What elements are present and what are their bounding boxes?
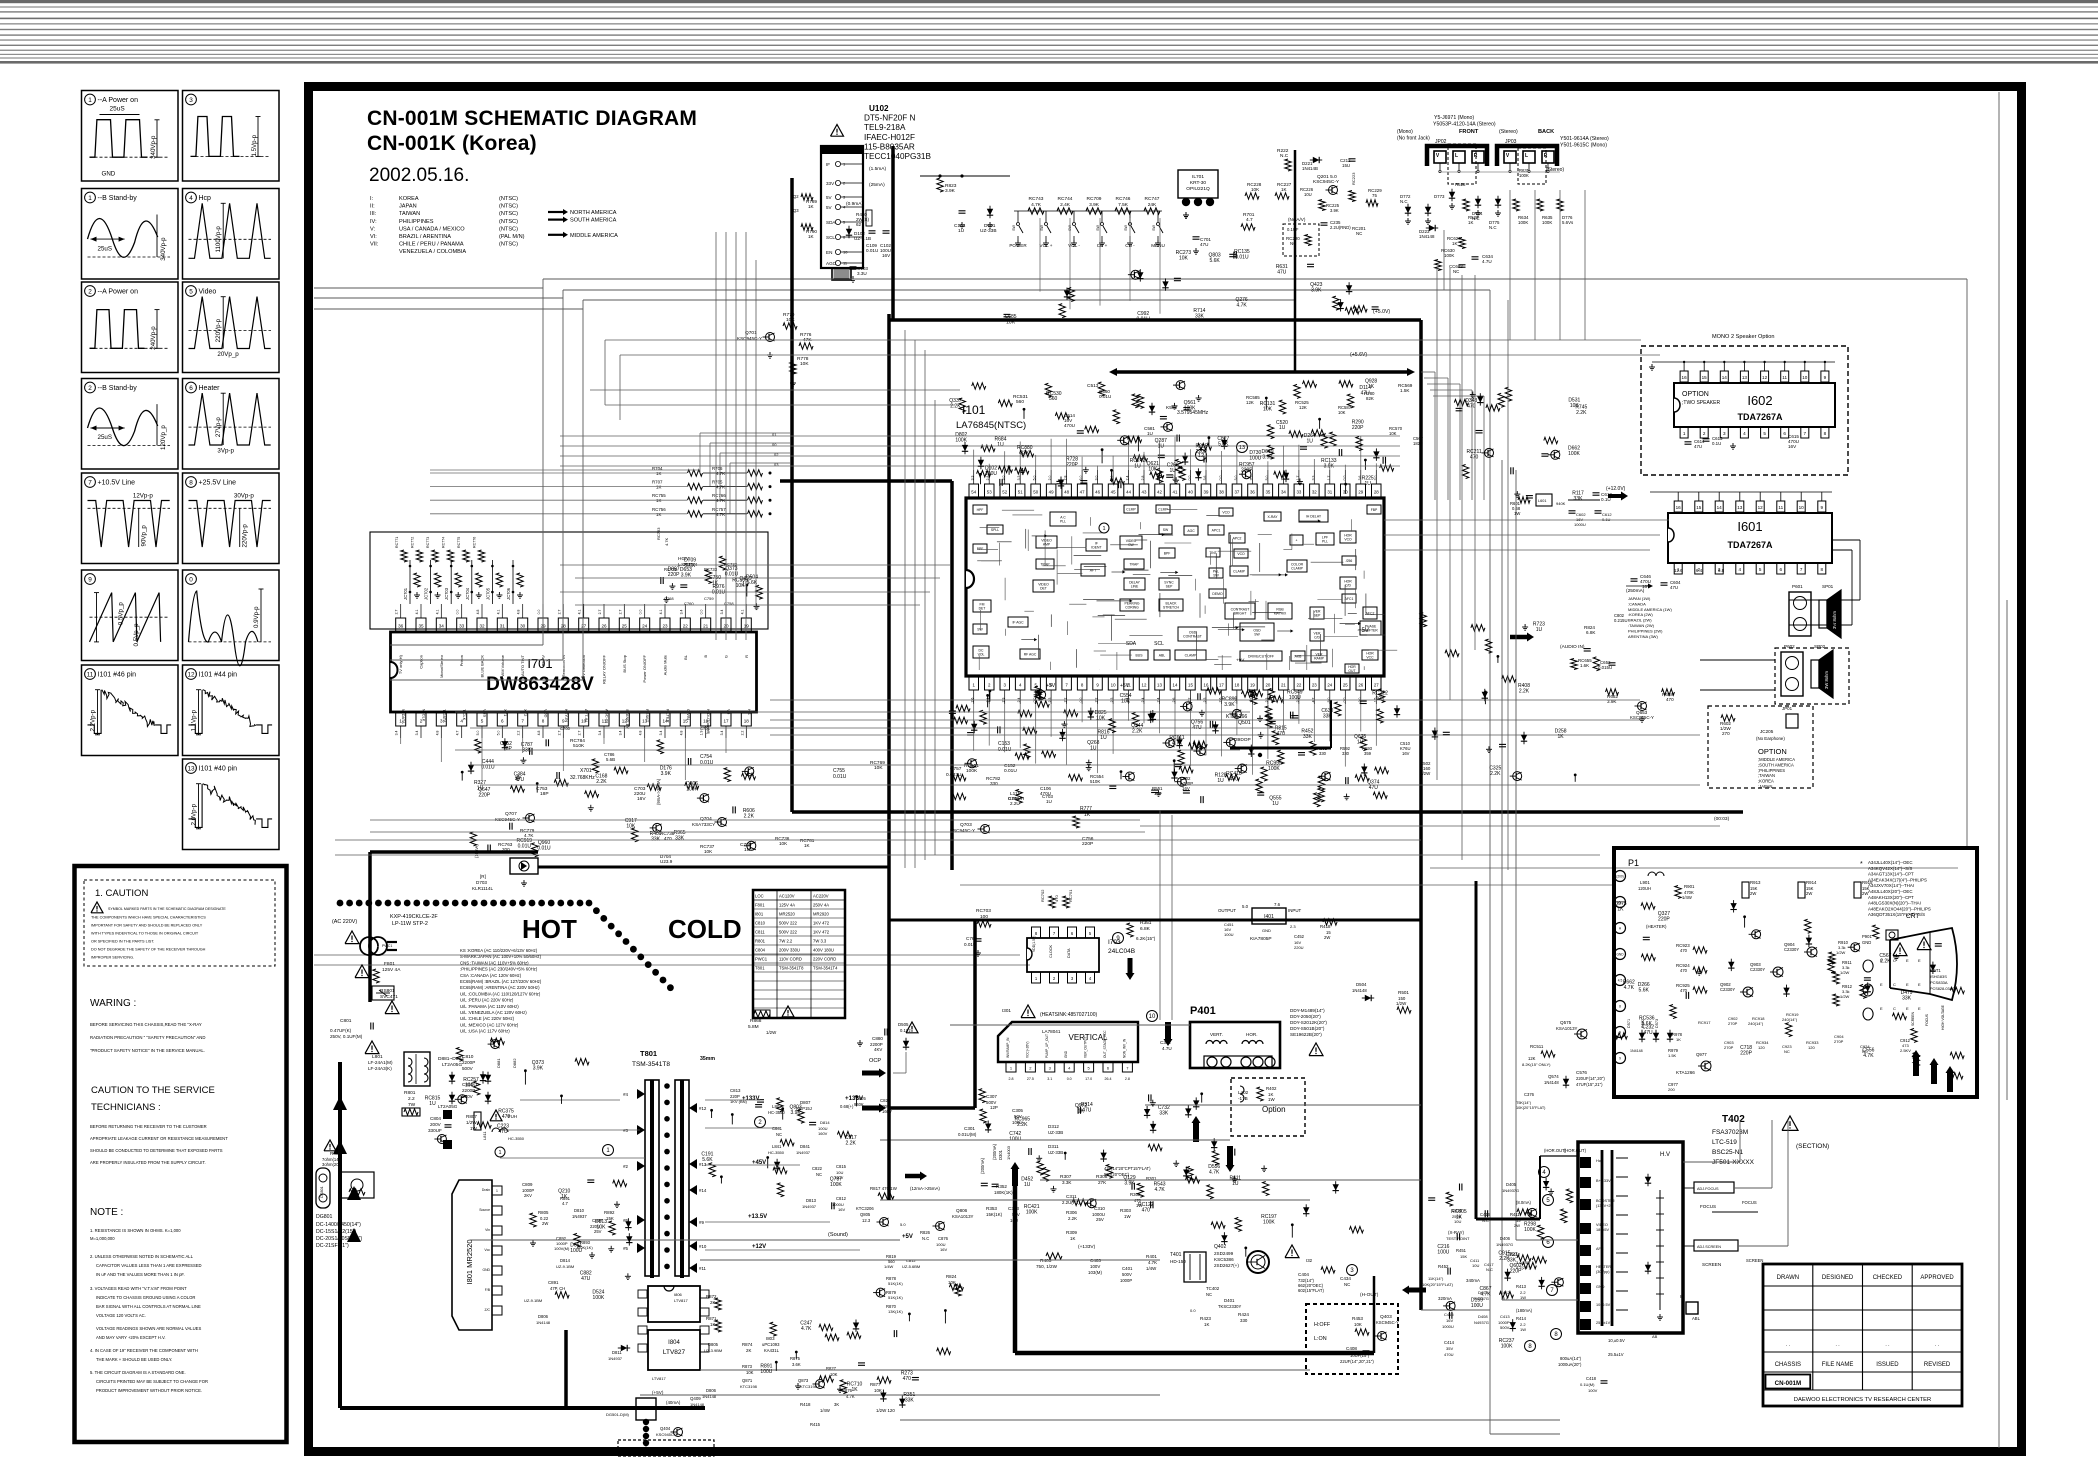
svg-text:4.8: 4.8 xyxy=(476,610,480,615)
svg-text:2.2K: 2.2K xyxy=(846,1140,857,1146)
svg-text:1N4148: 1N4148 xyxy=(1419,234,1435,239)
svg-text:1U: 1U xyxy=(1147,431,1153,436)
svg-text:1U: 1U xyxy=(1232,1181,1239,1187)
svg-text:SCL: SCL xyxy=(826,235,835,240)
svg-text:2.5KV: 2.5KV xyxy=(1900,1048,1911,1053)
svg-text:1/2W: 1/2W xyxy=(1840,994,1850,999)
svg-text:1.1Vp-p: 1.1Vp-p xyxy=(191,709,198,731)
svg-text:15K: 15K xyxy=(1460,1254,1467,1259)
svg-text:RC703: RC703 xyxy=(976,908,991,914)
svg-text:+133V: +133V xyxy=(845,1095,864,1102)
svg-text:SW: SW xyxy=(1152,225,1156,231)
svg-text:3.9K: 3.9K xyxy=(1224,702,1235,708)
svg-text:1N4148: 1N4148 xyxy=(1352,988,1367,993)
svg-text:4: 4 xyxy=(1743,431,1746,436)
svg-text:Q575: Q575 xyxy=(1560,1020,1572,1025)
svg-text:C403: C403 xyxy=(1090,1258,1101,1263)
svg-text:DDY-M1489(14"): DDY-M1489(14") xyxy=(1290,1008,1325,1013)
svg-text:BL: BL xyxy=(683,654,688,660)
svg-text:I801 MR2520: I801 MR2520 xyxy=(465,1239,474,1284)
svg-text:1N4148: 1N4148 xyxy=(536,1320,551,1325)
svg-text:1K: 1K xyxy=(1281,187,1288,192)
svg-text:AGC: AGC xyxy=(1187,529,1195,533)
svg-text:39: 39 xyxy=(1204,489,1209,494)
svg-text:ABL: ABL xyxy=(1692,1316,1701,1321)
svg-text:POWER: POWER xyxy=(1009,243,1027,248)
svg-text:3.4: 3.4 xyxy=(679,610,683,615)
svg-text:Source: Source xyxy=(479,1208,490,1212)
svg-text:C812: C812 xyxy=(836,1196,847,1201)
svg-text:6: 6 xyxy=(501,718,504,723)
svg-text:2KV: 2KV xyxy=(524,1193,532,1198)
svg-text:NORTH AMERICA: NORTH AMERICA xyxy=(570,210,617,216)
svg-text:FOCUS: FOCUS xyxy=(1700,1204,1716,1209)
svg-text:PCS833A: PCS833A xyxy=(1930,980,1948,985)
svg-text:100U: 100U xyxy=(1012,1120,1023,1125)
svg-text:E: E xyxy=(1880,982,1883,987)
svg-text:3.9K: 3.9K xyxy=(945,188,956,194)
svg-text:0.01U: 0.01U xyxy=(518,844,532,850)
svg-text:INDICATE TO CHASSIS GROUND USI: INDICATE TO CHASSIS GROUND USING A COLOR xyxy=(96,1295,195,1300)
svg-text:R913: R913 xyxy=(1750,880,1761,885)
svg-text:(40mA): (40mA) xyxy=(666,1400,681,1405)
svg-text:LP-11W STP-2: LP-11W STP-2 xyxy=(392,921,428,927)
svg-text:(Sound): (Sound) xyxy=(828,1232,848,1238)
svg-text:2W: 2W xyxy=(1514,1223,1520,1228)
svg-text:A34JLL40X(14")--OEC: A34JLL40X(14")--OEC xyxy=(1868,860,1913,865)
svg-text:7: 7 xyxy=(1800,567,1803,572)
svg-text:340Vp-p: 340Vp-p xyxy=(160,237,167,261)
svg-text:8: 8 xyxy=(1619,1005,1621,1009)
svg-text:WITH TYPES INDENTICAL TO THOSE: WITH TYPES INDENTICAL TO THOSE IN ORIGIN… xyxy=(91,932,199,936)
svg-text:47U: 47U xyxy=(498,1129,508,1135)
svg-text:CN-001M SCHEMATIC DIAGRAM: CN-001M SCHEMATIC DIAGRAM xyxy=(367,107,697,130)
svg-text:PLL: PLL xyxy=(1322,540,1328,544)
svg-text:220Vp-p: 220Vp-p xyxy=(242,524,249,548)
svg-text:1/2W 120: 1/2W 120 xyxy=(876,1408,895,1413)
svg-text:R451: R451 xyxy=(1456,1248,1467,1253)
svg-text:2.2U(R1): 2.2U(R1) xyxy=(1062,1200,1080,1205)
svg-text:100K: 100K xyxy=(1444,253,1454,258)
svg-text:38: 38 xyxy=(1219,489,1224,494)
svg-text:47U: 47U xyxy=(1670,585,1678,590)
svg-text:MIDDLE AMERICA: MIDDLE AMERICA xyxy=(570,233,618,239)
svg-text:HPF: HPF xyxy=(977,508,984,512)
svg-text:16V: 16V xyxy=(1788,444,1797,449)
svg-text:0.5Vp_p: 0.5Vp_p xyxy=(118,602,125,626)
svg-text:KA431L: KA431L xyxy=(764,1348,780,1353)
svg-text:4: 4 xyxy=(189,195,193,202)
svg-text:VCC(+26V): VCC(+26V) xyxy=(1025,1042,1029,1058)
svg-text:470(14"20"CPT15"FLAT): 470(14"20"CPT15"FLAT) xyxy=(1104,1166,1151,1171)
svg-text:1U: 1U xyxy=(1046,799,1052,804)
svg-text:10K: 10K xyxy=(874,1388,882,1393)
svg-text:KTA1266: KTA1266 xyxy=(1676,1070,1695,1075)
svg-text:5.6K: 5.6K xyxy=(1639,987,1650,993)
svg-text:R807: R807 xyxy=(466,1114,477,1119)
svg-text:359: 359 xyxy=(1364,751,1372,756)
svg-text:GND: GND xyxy=(1616,953,1624,957)
svg-text:4.7K: 4.7K xyxy=(1236,303,1247,309)
svg-text:L: L xyxy=(1525,153,1528,159)
svg-text:9: 9 xyxy=(1821,505,1824,510)
svg-text:Vin: Vin xyxy=(485,1228,490,1232)
svg-text:36: 36 xyxy=(398,623,404,628)
svg-text:EC65(RAM) :BRAZIL (AC 127/220V: EC65(RAM) :BRAZIL (AC 127/220V 60Hz) xyxy=(460,979,542,984)
svg-text:R352: R352 xyxy=(996,1184,1007,1189)
svg-text:U/L :COLOMBIA (AC 110/120/127V: U/L :COLOMBIA (AC 110/120/127V 60Hz) xyxy=(460,991,541,996)
svg-text:4.1: 4.1 xyxy=(659,610,663,615)
svg-text:RC702: RC702 xyxy=(1040,889,1045,902)
svg-text:XT2: XT2 xyxy=(523,709,528,717)
svg-text:23: 23 xyxy=(662,623,668,628)
svg-text:1N4148: 1N4148 xyxy=(1544,1080,1559,1085)
svg-text:S-MARK:JAPAN (AC 100V+10% 50/6: S-MARK:JAPAN (AC 100V+10% 50/60Hz) xyxy=(460,954,542,959)
svg-text:16V: 16V xyxy=(1402,751,1410,756)
svg-text:220P: 220P xyxy=(1740,1051,1752,1057)
svg-text:R309: R309 xyxy=(1066,1230,1077,1235)
svg-text:IMPROPER SERVICING.: IMPROPER SERVICING. xyxy=(91,956,134,960)
svg-text:-17B: -17B xyxy=(1238,1096,1248,1101)
svg-text:6: 6 xyxy=(1780,567,1783,572)
svg-text:4.7K: 4.7K xyxy=(716,471,725,476)
svg-text:5.6K: 5.6K xyxy=(1218,442,1229,448)
svg-text:10K: 10K xyxy=(1096,716,1106,722)
svg-text:1/2W: 1/2W xyxy=(766,1030,777,1035)
svg-text:Heater: Heater xyxy=(199,385,221,392)
svg-text:10K: 10K xyxy=(1389,431,1397,436)
svg-text:3.4: 3.4 xyxy=(395,731,399,736)
svg-text:13: 13 xyxy=(187,765,195,772)
svg-text:C418: C418 xyxy=(1586,1376,1597,1381)
svg-text:FILTER: FILTER xyxy=(666,709,671,723)
svg-text:B: B xyxy=(703,655,708,658)
svg-text:27K: 27K xyxy=(1098,1180,1107,1185)
svg-text:1000U: 1000U xyxy=(1442,1324,1454,1329)
svg-text:#3: #3 xyxy=(623,1128,628,1133)
svg-text:DG801: DG801 xyxy=(320,1186,324,1197)
svg-text:AMP: AMP xyxy=(1043,543,1051,547)
svg-text:4.8: 4.8 xyxy=(639,731,643,736)
svg-text:4.7K: 4.7K xyxy=(664,537,669,546)
svg-text:10K(20"15"FLAT): 10K(20"15"FLAT) xyxy=(1516,1106,1546,1110)
svg-text:N.C: N.C xyxy=(922,1236,929,1241)
svg-text:2W: 2W xyxy=(1324,935,1330,940)
svg-text:3.4: 3.4 xyxy=(618,731,622,736)
svg-text:270P: 270P xyxy=(1724,1045,1734,1050)
svg-text:220P: 220P xyxy=(478,792,490,798)
svg-text:ABL: ABL xyxy=(1159,654,1166,658)
svg-text:4.7K: 4.7K xyxy=(1863,1053,1874,1059)
svg-text:UZ-33B: UZ-33B xyxy=(1048,1150,1063,1155)
svg-text:(NTSC): (NTSC) xyxy=(499,196,518,202)
svg-text:D810: D810 xyxy=(574,1208,585,1213)
svg-text:DET: DET xyxy=(979,607,986,611)
svg-text:CSA :CANADA (AC 120V 60Hz): CSA :CANADA (AC 120V 60Hz) xyxy=(460,973,522,978)
svg-text:10K: 10K xyxy=(746,1370,754,1375)
svg-text:MIDDLE AMERICA (1W): MIDDLE AMERICA (1W) xyxy=(1628,607,1672,612)
svg-text:10K: 10K xyxy=(830,1372,838,1377)
svg-text:TDA7267A: TDA7267A xyxy=(1727,540,1773,550)
svg-text:10K: 10K xyxy=(1251,187,1260,192)
svg-text:VOLTAGE READINGS SHOWN ARE NOR: VOLTAGE READINGS SHOWN ARE NORMAL VALUES xyxy=(96,1326,201,1331)
svg-text:20: 20 xyxy=(1265,682,1270,687)
svg-text:5.0: 5.0 xyxy=(1033,476,1037,481)
svg-text:220P: 220P xyxy=(1352,425,1364,431)
svg-text:DO NOT DEGRADE THE SAFETY OF T: DO NOT DEGRADE THE SAFETY OF THE RECEIVE… xyxy=(91,948,206,952)
svg-text:220P: 220P xyxy=(1658,917,1670,923)
svg-text:III:: III: xyxy=(370,211,377,217)
svg-text:3W 8ohm: 3W 8ohm xyxy=(1824,671,1829,689)
svg-text:AND MAY VARY +20% EXCEPT H.V.: AND MAY VARY +20% EXCEPT H.V. xyxy=(96,1335,166,1340)
svg-text:C/D: C/D xyxy=(1345,584,1351,588)
svg-text:Q402: Q402 xyxy=(1214,1244,1226,1250)
svg-text:FOCUS: FOCUS xyxy=(1925,1013,1929,1026)
svg-text:82K: 82K xyxy=(1366,396,1374,401)
svg-text:EN: EN xyxy=(826,250,832,255)
svg-text:100K: 100K xyxy=(1568,451,1580,457)
svg-text:P602: P602 xyxy=(1784,644,1795,649)
svg-text:(1.5mA): (1.5mA) xyxy=(869,166,886,172)
svg-text:(HEATSINK:4857027100): (HEATSINK:4857027100) xyxy=(1040,1012,1097,1018)
svg-text:1/4W: 1/4W xyxy=(820,1408,830,1413)
svg-text:1K: 1K xyxy=(1452,241,1457,246)
svg-text:SW: SW xyxy=(1012,225,1016,231)
svg-text:SW: SW xyxy=(1254,633,1260,637)
svg-text:2002.05.16.: 2002.05.16. xyxy=(369,165,469,186)
svg-text:34: 34 xyxy=(439,623,445,628)
svg-text:5.0: 5.0 xyxy=(1172,476,1176,481)
svg-text:6: 6 xyxy=(189,385,193,392)
svg-text:33K: 33K xyxy=(1574,496,1584,502)
svg-text:C876: C876 xyxy=(938,1236,949,1241)
svg-text:25uS: 25uS xyxy=(98,434,112,441)
svg-text:MR2520: MR2520 xyxy=(779,912,795,917)
svg-text:VSS: VSS xyxy=(483,709,488,717)
svg-text:ISHG83S: ISHG83S xyxy=(1930,974,1947,979)
svg-text:D504: D504 xyxy=(1356,982,1367,987)
svg-text:RC771: RC771 xyxy=(395,537,399,548)
svg-text:1000uA(20"): 1000uA(20") xyxy=(1558,1362,1582,1367)
svg-text:C408: C408 xyxy=(1346,1346,1357,1351)
svg-text:NOTE :: NOTE : xyxy=(90,1207,123,1218)
svg-text:R353: R353 xyxy=(986,1206,997,1211)
svg-text:4.8: 4.8 xyxy=(517,610,521,615)
svg-text:T5K(14"): T5K(14") xyxy=(1516,1101,1532,1105)
svg-text:1.7: 1.7 xyxy=(1327,476,1331,481)
svg-text:FBP: FBP xyxy=(1371,508,1378,512)
svg-text:3.9K: 3.9K xyxy=(1311,287,1322,293)
svg-text:4.7U: 4.7U xyxy=(1482,259,1492,264)
svg-text:100K: 100K xyxy=(1518,220,1528,225)
svg-text:10K: 10K xyxy=(1354,1322,1362,1327)
svg-text:X-RAY: X-RAY xyxy=(1267,515,1278,519)
svg-text:IL701: IL701 xyxy=(1192,174,1204,180)
svg-text:U/L :USA (AC 117V 60Hz): U/L :USA (AC 117V 60Hz) xyxy=(460,1029,510,1034)
svg-text:CRT: CRT xyxy=(1906,913,1919,920)
svg-text:270: 270 xyxy=(1722,731,1730,736)
svg-text:A34EAK34X(17)(4")--PHILIPS: A34EAK34X(17)(4")--PHILIPS xyxy=(1868,877,1927,882)
svg-text:C513: C513 xyxy=(1087,383,1099,389)
svg-text:4.7K: 4.7K xyxy=(716,498,725,503)
svg-text:7W 2.2: 7W 2.2 xyxy=(779,939,793,944)
svg-text:3.3: 3.3 xyxy=(971,476,975,481)
svg-text:1.5K: 1.5K xyxy=(1668,1053,1677,1058)
svg-text:ISSUED: ISSUED xyxy=(1876,1362,1899,1368)
svg-text:2.2U(RND): 2.2U(RND) xyxy=(1330,225,1351,230)
svg-text:T402: T402 xyxy=(1722,1114,1745,1125)
svg-text:1/4W: 1/4W xyxy=(1146,1266,1157,1271)
svg-text:21: 21 xyxy=(1281,682,1286,687)
svg-text:VIDEO: VIDEO xyxy=(1596,1223,1608,1227)
svg-text:D311: D311 xyxy=(1048,1144,1059,1149)
svg-text:R418: R418 xyxy=(800,1402,811,1407)
svg-text:IV:: IV: xyxy=(370,219,377,225)
svg-text:CNS :TAIWAN (AC 110V+5% 60Hz): CNS :TAIWAN (AC 110V+5% 60Hz) xyxy=(460,960,529,965)
svg-text:1K: 1K xyxy=(1204,1322,1209,1327)
svg-text:DG801: DG801 xyxy=(316,1214,333,1220)
svg-text:RC772: RC772 xyxy=(411,537,415,548)
svg-text:Q3: Q3 xyxy=(793,208,799,213)
svg-text:1/4W: 1/4W xyxy=(884,1264,894,1269)
svg-text:/256: /256 xyxy=(1346,559,1353,563)
svg-text:VDD: VDD xyxy=(544,709,549,718)
svg-text:KSC945C-Y: KSC945C-Y xyxy=(1313,179,1340,185)
svg-text:7W: 7W xyxy=(408,1102,416,1108)
svg-text:I602: I602 xyxy=(1747,393,1772,408)
svg-text:L601: L601 xyxy=(1538,499,1546,503)
svg-text:270P: 270P xyxy=(1728,1021,1738,1026)
svg-text:CHECKED: CHECKED xyxy=(1873,1275,1903,1281)
svg-text:1U: 1U xyxy=(1217,778,1224,784)
svg-text:M-CLK: M-CLK xyxy=(422,709,427,722)
svg-text:L901: L901 xyxy=(1640,880,1650,885)
svg-text:FRONT: FRONT xyxy=(1459,129,1479,135)
svg-text:12P: 12P xyxy=(990,1105,998,1110)
svg-text:47P, CH: 47P, CH xyxy=(550,1286,565,1291)
svg-text:ADJ.FOCUS: ADJ.FOCUS xyxy=(1697,1187,1719,1191)
svg-text:1KV 472: 1KV 472 xyxy=(813,930,830,935)
svg-text:CHASSIS: CHASSIS xyxy=(1775,1362,1801,1368)
svg-text:CAPACITOR VALUES LESS THAN 1 A: CAPACITOR VALUES LESS THAN 1 ARE EXPRESS… xyxy=(96,1263,202,1268)
svg-text:CONTRAST: CONTRAST xyxy=(1183,635,1202,639)
svg-text:A/V Detection: A/V Detection xyxy=(581,655,586,679)
svg-text:100U: 100U xyxy=(760,1369,772,1375)
svg-text:GND: GND xyxy=(1064,1050,1068,1058)
svg-text:C701: C701 xyxy=(700,726,711,731)
svg-text:. .: . . xyxy=(1935,1342,1939,1348)
svg-text:220U: 220U xyxy=(1294,945,1304,950)
svg-text:3.0: 3.0 xyxy=(1095,476,1099,481)
svg-text:3.9K: 3.9K xyxy=(1124,1181,1135,1187)
svg-text:45: 45 xyxy=(1111,489,1116,494)
svg-text:APROPRIATE LEAKAGE CURRENT OR: APROPRIATE LEAKAGE CURRENT OR RESISTANCE… xyxy=(90,1136,228,1141)
svg-text:R414: R414 xyxy=(1516,1316,1527,1321)
svg-text:400V 180U: 400V 180U xyxy=(813,948,834,953)
svg-text:940K: 940K xyxy=(1556,501,1566,506)
svg-text:PHILIPPINES: PHILIPPINES xyxy=(399,219,434,225)
svg-text:28: 28 xyxy=(1374,489,1379,494)
svg-text:1N4937: 1N4937 xyxy=(796,1150,811,1155)
svg-text:1U: 1U xyxy=(1134,464,1141,470)
svg-text:52: 52 xyxy=(1002,489,1007,494)
svg-text:OR SPECIFIED IN THE PARTS LIST: OR SPECIFIED IN THE PARTS LIST. xyxy=(91,940,154,944)
svg-text:22: 22 xyxy=(1296,682,1301,687)
svg-text:(PAL M/N): (PAL M/N) xyxy=(499,234,525,240)
svg-text:16V: 16V xyxy=(637,796,646,802)
svg-text:10K: 10K xyxy=(626,824,636,830)
svg-text:50V: 50V xyxy=(1014,1114,1022,1119)
svg-text:50: 50 xyxy=(1033,489,1038,494)
svg-text:BEFORE RETURNING THE RECEIVER: BEFORE RETURNING THE RECEIVER TO THE CUS… xyxy=(90,1124,207,1129)
svg-text:1/2W: 1/2W xyxy=(466,1120,477,1125)
svg-text:GND: GND xyxy=(482,1268,490,1272)
svg-text:UZ-9.1BM: UZ-9.1BM xyxy=(524,1298,542,1303)
svg-text:8: 8 xyxy=(1824,431,1827,436)
svg-text:Y5-J6971 (Mono): Y5-J6971 (Mono) xyxy=(1434,115,1474,121)
svg-text:31: 31 xyxy=(1327,489,1332,494)
svg-text:2.2U: 2.2U xyxy=(1010,801,1020,806)
svg-text:INPUT: INPUT xyxy=(1288,908,1301,913)
svg-text:SOUTH AMERICA: SOUTH AMERICA xyxy=(570,218,617,224)
svg-text:20Vp_p: 20Vp_p xyxy=(217,351,239,358)
svg-text:LT2A05G: LT2A05G xyxy=(442,1062,462,1068)
svg-text:1. RESISTANCE IS SHOWN IN OHMS: 1. RESISTANCE IS SHOWN IN OHMS. K=1,000 xyxy=(90,1228,181,1233)
svg-text:0.1U: 0.1U xyxy=(1712,441,1721,446)
svg-text:;KOREA: ;KOREA xyxy=(1758,779,1774,784)
svg-text:12.3: 12.3 xyxy=(862,1218,871,1223)
svg-text:SHOULD BE CONDUCTED TO DETERMI: SHOULD BE CONDUCTED TO DETERMINE THAT EX… xyxy=(90,1148,223,1153)
svg-text:VCO: VCO xyxy=(1222,511,1230,515)
svg-text:2SD2627(+): 2SD2627(+) xyxy=(1214,1263,1239,1268)
svg-text:160V: 160V xyxy=(818,1131,828,1136)
svg-text:(+5V): (+5V) xyxy=(652,1390,664,1395)
svg-text:. .: . . xyxy=(1885,1342,1889,1348)
svg-text:R501: R501 xyxy=(1398,990,1409,995)
svg-text:13: 13 xyxy=(1157,682,1162,687)
svg-text:62: 62 xyxy=(856,222,862,227)
svg-text:3.9K: 3.9K xyxy=(533,1065,544,1071)
svg-text:1KV 472: 1KV 472 xyxy=(813,921,830,926)
svg-text:LTV817: LTV817 xyxy=(652,1376,666,1381)
svg-text:E: E xyxy=(1918,982,1921,987)
svg-text:+25.5V Line: +25.5V Line xyxy=(199,480,237,487)
svg-text:U102: U102 xyxy=(869,104,889,113)
svg-text:R306: R306 xyxy=(1066,1210,1077,1215)
svg-text:470: 470 xyxy=(903,1376,912,1382)
svg-text:3.3: 3.3 xyxy=(1017,476,1021,481)
svg-text:I803: I803 xyxy=(766,1336,775,1341)
svg-text:4.7K: 4.7K xyxy=(524,833,534,838)
svg-text:RC223: RC223 xyxy=(1351,172,1356,185)
svg-text:Drain: Drain xyxy=(482,1188,490,1192)
svg-text:KEY-IN: KEY-IN xyxy=(564,709,569,722)
svg-text:D805: D805 xyxy=(708,1342,719,1347)
svg-text:1/2W: 1/2W xyxy=(1396,1001,1407,1006)
svg-text:2.7: 2.7 xyxy=(598,610,602,615)
svg-text:A48JLL40X(20")--OEC: A48JLL40X(20")--OEC xyxy=(1868,889,1913,894)
svg-text:SW: SW xyxy=(1040,225,1044,231)
svg-text:DDY-S2012K(20"): DDY-S2012K(20") xyxy=(1290,1020,1327,1025)
svg-text:KOREA: KOREA xyxy=(399,196,419,202)
svg-text:DDY-2050(20"): DDY-2050(20") xyxy=(1290,1014,1321,1019)
svg-text:43: 43 xyxy=(1142,489,1147,494)
svg-text:SEP: SEP xyxy=(1166,585,1174,589)
svg-text:VER_OUTPUT: VER_OUTPUT xyxy=(1084,1037,1088,1058)
svg-text:34: 34 xyxy=(1281,489,1286,494)
svg-text:C414: C414 xyxy=(1444,1340,1455,1345)
svg-text:8: 8 xyxy=(1821,567,1824,572)
